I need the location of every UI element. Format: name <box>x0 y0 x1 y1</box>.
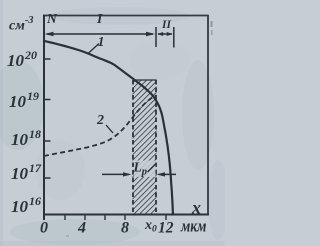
x tick 2 <box>64 215 66 220</box>
svg-text:0: 0 <box>40 220 48 237</box>
region I arrow <box>47 33 153 35</box>
x tick 6 <box>104 215 106 220</box>
clearing behind lp label <box>134 161 156 178</box>
x tick 8 <box>124 215 126 220</box>
svg-text:I: I <box>96 11 103 26</box>
tick separator 1 <box>155 27 157 47</box>
svg-text:N: N <box>46 11 58 26</box>
hatch fragment near lp <box>148 164 157 173</box>
svg-text:1: 1 <box>98 35 105 50</box>
tick separator 2 <box>173 27 175 48</box>
svg-text:II: II <box>161 19 171 31</box>
x tick 4 <box>84 215 86 220</box>
top frame line <box>43 15 209 17</box>
y tick 10^17 <box>45 177 51 179</box>
svg-text:мкм: мкм <box>180 217 207 236</box>
scan speckles <box>211 21 213 27</box>
region II arrow <box>158 33 172 35</box>
right frame line <box>207 15 209 215</box>
svg-text:12: 12 <box>158 220 174 237</box>
svg-text:2: 2 <box>96 113 104 128</box>
band right dashed edge <box>155 80 157 214</box>
y tick 10^19 <box>45 99 51 101</box>
svg-text:4: 4 <box>77 220 86 237</box>
x tick 12 <box>165 215 167 220</box>
svg-text:x: x <box>191 198 201 218</box>
lp right arrow <box>159 173 177 175</box>
leader for label 2 <box>106 125 113 133</box>
y axis <box>43 15 45 221</box>
y tick 10^20 <box>45 58 51 60</box>
y tick 10^18 <box>45 140 51 142</box>
band left dashed edge <box>132 80 134 214</box>
leader for label 1 <box>88 44 99 54</box>
lp left arrow <box>102 173 129 175</box>
curve 1 (solid donor profile) <box>44 41 173 215</box>
paper background <box>0 0 225 246</box>
band top edge <box>133 79 157 81</box>
curve 2 (dashed acceptor profile) <box>44 96 156 157</box>
x axis <box>43 214 209 216</box>
hatched band (depletion region) <box>133 80 157 215</box>
svg-text:8: 8 <box>121 220 129 237</box>
